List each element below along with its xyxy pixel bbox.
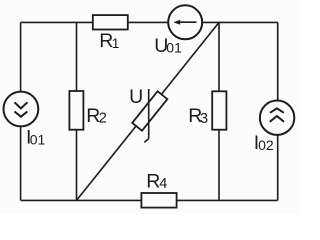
- wire bottom: [21, 199, 278, 201]
- svg-text:U: U: [129, 86, 143, 108]
- wire right: [277, 22, 279, 200]
- wire left: [20, 22, 22, 200]
- svg-text:2: 2: [99, 111, 107, 127]
- wire diagonal: [77, 22, 220, 200]
- svg-text:01: 01: [30, 131, 46, 147]
- source I01 (circle with double chevron down): [4, 92, 39, 127]
- resistor R3: [212, 91, 226, 129]
- resistor R1: [93, 15, 128, 29]
- svg-text:02: 02: [258, 137, 274, 153]
- svg-text:1: 1: [112, 35, 120, 51]
- source U01 (circle with left arrow): [168, 5, 202, 39]
- wire R2 branch: [76, 22, 78, 200]
- element U box (rotated on diagonal): [132, 91, 167, 130]
- svg-text:4: 4: [159, 176, 167, 192]
- wire R3 branch: [218, 22, 220, 200]
- wire top: [21, 21, 278, 23]
- svg-text:R: R: [146, 170, 160, 192]
- source I02 (circle with double chevron up): [260, 101, 294, 135]
- resistor R4: [141, 193, 176, 208]
- voltage arrow U: [144, 89, 148, 142]
- resistor R2: [69, 91, 83, 130]
- svg-text:01: 01: [166, 40, 182, 56]
- svg-text:3: 3: [200, 111, 208, 127]
